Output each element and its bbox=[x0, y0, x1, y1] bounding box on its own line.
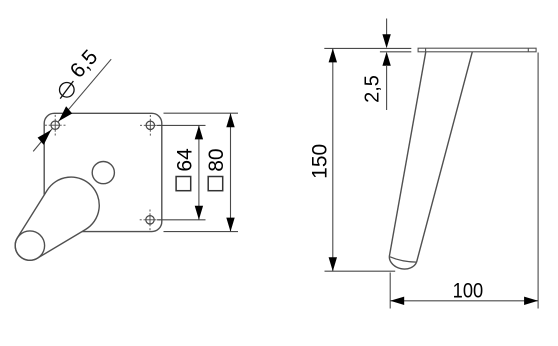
label 100 bbox=[453, 279, 483, 303]
foot cap seam bbox=[389, 257, 416, 263]
extension line plate right (for 100) bbox=[537, 53, 539, 309]
leg right edge (side view) bbox=[417, 52, 473, 262]
dimension 2,5 arrows bbox=[382, 19, 390, 111]
leg (top view, tapered cone silhouette) bbox=[15, 177, 99, 260]
svg-text:80: 80 bbox=[205, 148, 228, 171]
label 6,5 bbox=[66, 46, 103, 83]
extension lines for 150 bbox=[324, 48, 411, 271]
leg foot circle (top view) bbox=[15, 231, 44, 260]
foot dome bbox=[389, 257, 416, 269]
dimension line 100 bbox=[390, 297, 538, 305]
extension lines for 80 bbox=[164, 113, 239, 231]
mounting plate (top view) bbox=[44, 113, 162, 231]
extension line foot left (for 100) bbox=[389, 273, 391, 309]
leader arrow upper bbox=[59, 106, 73, 121]
svg-text:2,5: 2,5 bbox=[362, 75, 384, 103]
dimension line 64 bbox=[195, 125, 203, 219]
hole TL bbox=[45, 115, 66, 136]
svg-text:64: 64 bbox=[173, 148, 196, 172]
svg-text:100: 100 bbox=[453, 279, 483, 303]
label 64 bbox=[173, 148, 196, 172]
dimension line 80 bbox=[226, 113, 234, 231]
leader arrow lower bbox=[38, 130, 52, 145]
plate edge tick right bbox=[527, 48, 529, 52]
plate (side view) bbox=[418, 48, 536, 52]
diameter symbol bbox=[60, 81, 75, 99]
centre hole bbox=[92, 162, 114, 184]
svg-text:150: 150 bbox=[309, 144, 332, 179]
square symbol for 80 bbox=[208, 177, 223, 191]
hole BR bbox=[140, 210, 161, 231]
extension lines for 64 bbox=[157, 125, 206, 219]
leg left edge (side view) bbox=[389, 52, 426, 257]
plate edge tick left bbox=[425, 48, 427, 52]
label 2,5 bbox=[362, 75, 384, 103]
label 150 bbox=[309, 144, 332, 179]
square symbol for 64 bbox=[176, 177, 191, 191]
extension line plate bottom (for 2,5) bbox=[380, 51, 411, 53]
label 80 bbox=[205, 148, 228, 171]
dimension line 150 bbox=[329, 48, 337, 271]
hole TR bbox=[140, 115, 161, 136]
leader line for hole diameter bbox=[33, 59, 111, 151]
